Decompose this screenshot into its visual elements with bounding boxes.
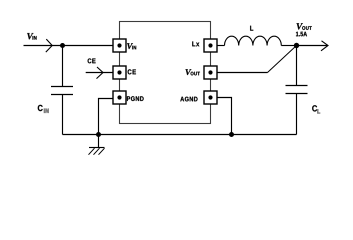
wire pin VOUT horizontal	[217, 72, 268, 74]
wire capacitor CL to node VOUT	[296, 46, 298, 86]
wire capacitor CIN to ground bus	[62, 95, 64, 135]
junction node AGND/ground	[229, 132, 234, 137]
arrowhead VIN input	[46, 39, 52, 52]
wire pin Lx to inductor L	[217, 45, 225, 47]
capacitor CL	[286, 86, 308, 94]
label net VOUT output	[297, 23, 312, 30]
capacitor CIN	[51, 87, 73, 95]
value label CL	[312, 105, 320, 113]
pin label VOUT	[186, 69, 200, 75]
wire ground bus to capacitor CL	[296, 94, 298, 135]
wire junction to capacitor CIN	[62, 46, 64, 87]
value label L	[250, 26, 253, 31]
wire pin AGND to ground bus	[217, 98, 232, 135]
wire VIN input to pin VIN	[24, 45, 114, 47]
pin label CE	[128, 69, 136, 74]
ground	[89, 135, 105, 155]
pin Lx	[204, 39, 217, 52]
label net VIN input	[27, 33, 36, 39]
pin VOUT	[204, 66, 217, 79]
wire CE input to pin CE	[86, 72, 113, 74]
arrowhead CE input	[97, 67, 104, 79]
pin VIN	[113, 39, 126, 52]
IC U1 outline	[120, 22, 211, 124]
wire VOUT output arrow	[297, 45, 328, 47]
pin PGND	[113, 91, 126, 104]
wire inductor L to node VOUT	[281, 45, 296, 47]
pin label PGND	[127, 96, 144, 101]
pin label Lx	[192, 41, 199, 46]
junction node PGND/ground	[96, 132, 101, 137]
wire ground bus	[63, 134, 297, 136]
wire pin VOUT diagonal to node VOUT	[268, 46, 297, 73]
arrowhead VOUT output	[321, 41, 328, 51]
pin label VIN	[127, 43, 136, 49]
pin AGND	[204, 91, 217, 104]
value label CIN	[38, 105, 49, 113]
junction node VIN/CIN	[60, 43, 65, 48]
value label 1.5A	[296, 32, 307, 36]
wire pin PGND to ground bus	[99, 99, 114, 135]
inductor L	[225, 36, 282, 45]
pin label AGND	[180, 97, 197, 102]
label net CE input	[88, 58, 96, 63]
node VOUT junction	[294, 43, 299, 48]
pin CE	[113, 66, 126, 79]
